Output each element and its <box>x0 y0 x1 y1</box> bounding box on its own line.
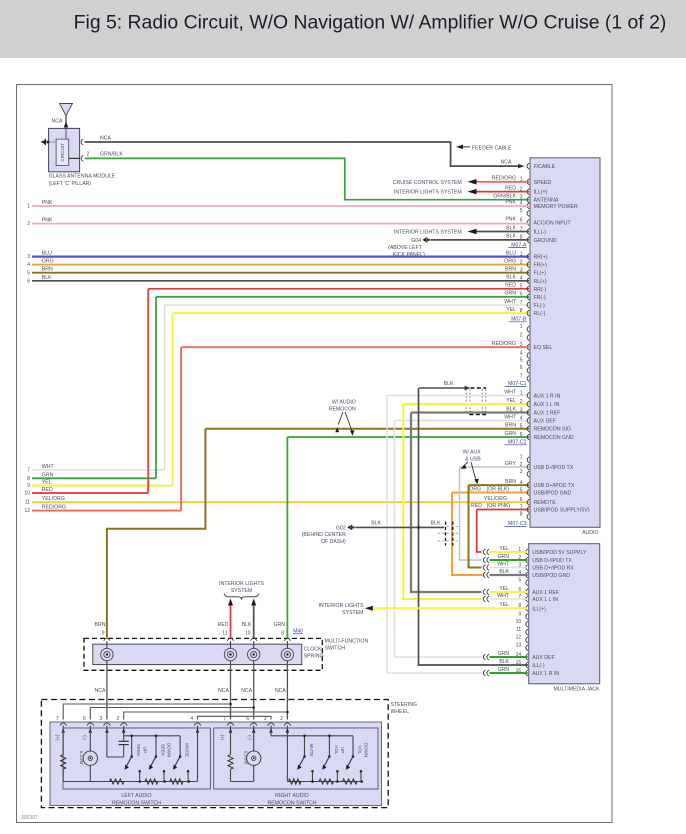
bus ill- to left pin6 <box>90 708 253 720</box>
svg-text:ILLUM: ILLUM <box>244 751 249 765</box>
svg-text:BRN: BRN <box>505 267 516 273</box>
radio pin RR(-) bracket <box>527 286 529 292</box>
radio pin USB D-/IPOD TX <box>527 464 529 470</box>
svg-text:(OR BLK): (OR BLK) <box>487 486 510 492</box>
svg-text:3: 3 <box>520 268 523 274</box>
svg-text:5: 5 <box>27 270 30 276</box>
svg-text:BLK: BLK <box>371 520 381 526</box>
svg-text:FL(-): FL(-) <box>534 303 546 309</box>
wire BRN remocon sig path <box>107 429 205 638</box>
junction bus3 <box>286 711 289 714</box>
svg-text:4: 4 <box>27 262 30 268</box>
svg-text:FL(+): FL(+) <box>534 271 547 277</box>
svg-text:2: 2 <box>520 259 523 265</box>
wire RED ill+ <box>468 189 477 195</box>
radio pin C-6 <box>527 367 529 373</box>
radio pin ILL(-) row <box>527 229 529 235</box>
svg-text:BLK: BLK <box>506 234 516 240</box>
capacitor <box>123 735 125 742</box>
svg-text:5: 5 <box>520 358 523 364</box>
svg-text:SYSTEM: SYSTEM <box>231 588 252 594</box>
switch pin 7 entry <box>62 726 64 735</box>
svg-text:FR(+): FR(+) <box>534 263 548 269</box>
svg-text:(-): (-) <box>248 735 253 740</box>
wire NCA below clock spring 2 <box>230 665 232 720</box>
jack pin 1 USB/IPOD 5V SUPPLY <box>526 549 528 555</box>
clock spring bar <box>93 644 302 665</box>
multimedia jack block <box>529 544 600 684</box>
svg-text:STEERING: STEERING <box>391 702 418 708</box>
svg-text:2: 2 <box>520 399 523 405</box>
radio pin C3-3 <box>527 471 529 477</box>
right rail junctions <box>311 780 314 783</box>
svg-text:AUX 1 R IN: AUX 1 R IN <box>532 671 559 677</box>
switch pin 2 bracket <box>284 723 291 726</box>
riser GRN FR- <box>155 297 157 478</box>
svg-text:5: 5 <box>520 284 523 290</box>
right rail resistors <box>289 779 302 784</box>
jack pin 13 <box>526 645 528 651</box>
svg-text:3: 3 <box>520 195 523 201</box>
svg-text:WHT: WHT <box>504 414 517 420</box>
radio pin GROUND row <box>527 237 529 243</box>
svg-text:REMOTE: REMOTE <box>534 500 557 506</box>
radio pin C-4 <box>527 353 529 359</box>
jack pin 11 <box>526 629 528 635</box>
svg-text:USB D-/IPOD TX: USB D-/IPOD TX <box>532 558 572 564</box>
svg-text:AUX 1 R IN: AUX 1 R IN <box>534 394 561 400</box>
svg-text:USB D-/IPOD TX: USB D-/IPOD TX <box>534 465 574 471</box>
antenna module pin bracket NCA <box>81 139 83 145</box>
switch pin 6 entry <box>89 726 91 735</box>
steering wheel dashed box <box>41 700 388 808</box>
svg-text:BRN: BRN <box>42 267 53 273</box>
radio pin FL(+) bracket <box>527 270 529 276</box>
remocon switches lavender box <box>50 722 382 806</box>
switch pin 2 entry <box>286 726 288 735</box>
wire PNK left pin 2 <box>32 223 529 225</box>
antenna module pin bracket 2 <box>81 155 83 161</box>
switch pin 7 bracket <box>60 723 67 726</box>
svg-text:GRN/BLK: GRN/BLK <box>100 152 123 158</box>
svg-text:USB/IPOD GND: USB/IPOD GND <box>532 573 570 579</box>
svg-text:1: 1 <box>520 251 523 257</box>
wire GRN to radio REMOCON GND <box>287 436 529 438</box>
svg-text:ORG: ORG <box>504 258 516 264</box>
svg-text:GROUND: GROUND <box>534 238 557 244</box>
svg-text:(BEHIND CENTER: (BEHIND CENTER <box>302 532 346 538</box>
radio pin REMOCON SIG bracket <box>527 426 529 432</box>
switch pin 6 bracket <box>250 723 257 726</box>
svg-text:YEL/ORG: YEL/ORG <box>484 496 507 502</box>
wire NCA below clock spring 3 <box>253 665 255 720</box>
svg-text:NCA: NCA <box>52 119 63 125</box>
wire YEL to radio RL(-) <box>173 312 529 314</box>
right switch top bus <box>271 735 353 737</box>
svg-text:BRN: BRN <box>505 423 516 429</box>
aux usb arrows <box>463 462 468 467</box>
svg-text:2: 2 <box>87 152 90 158</box>
jack pin 14 AUX DEF <box>526 654 528 660</box>
radio pin AUX 1 REF bracket <box>527 410 529 416</box>
right pin2 internal wire <box>286 735 288 782</box>
svg-text:8: 8 <box>520 308 523 314</box>
wire WHT jack 3 <box>490 567 528 569</box>
wire RED ill+ clockspring <box>230 605 232 638</box>
svg-text:PNK: PNK <box>505 200 516 206</box>
radio pin RL(+) bracket <box>527 278 529 284</box>
svg-text:6: 6 <box>246 716 249 722</box>
antenna module internal wires <box>49 141 57 143</box>
jack pin 9 <box>526 614 528 620</box>
wire GRN/BLK antenna <box>85 158 530 199</box>
switch pin 7 entry <box>230 726 232 735</box>
svg-text:(+): (+) <box>220 735 225 741</box>
svg-text:BLK: BLK <box>499 569 509 575</box>
svg-text:BLK: BLK <box>242 622 252 628</box>
svg-text:W/ AUX: W/ AUX <box>463 449 482 455</box>
svg-text:INTERIOR LIGHTS SYSTEM: INTERIOR LIGHTS SYSTEM <box>394 230 462 236</box>
splice jack 1 <box>483 549 485 555</box>
svg-text:DOWN: DOWN <box>167 743 172 758</box>
right bottom rail <box>287 781 361 783</box>
svg-text:RED: RED <box>471 503 482 509</box>
radio pin C-7 <box>527 376 529 382</box>
svg-text:RL(-): RL(-) <box>534 311 546 317</box>
svg-text:6: 6 <box>520 217 523 223</box>
clock spring coil 2 <box>230 641 232 649</box>
svg-text:(OR PNK): (OR PNK) <box>487 503 511 509</box>
jack pin 6 AUX 1 REF <box>526 589 528 595</box>
svg-text:UP: UP <box>142 747 147 753</box>
wire YEL/ORG REMOTE <box>32 501 529 503</box>
riser WHT FL- <box>164 305 166 470</box>
clock spring coil 4 <box>286 641 288 649</box>
svg-text:2: 2 <box>27 221 30 227</box>
svg-text:6: 6 <box>520 292 523 298</box>
svg-text:7: 7 <box>520 504 523 510</box>
radio pin C-2 <box>527 335 529 341</box>
svg-text:& USB: & USB <box>465 456 481 462</box>
wire RED to radio RR(-) <box>148 288 529 290</box>
svg-text:WHT: WHT <box>42 464 55 470</box>
svg-text:RL(+): RL(+) <box>534 279 547 285</box>
svg-text:RED/ORG: RED/ORG <box>492 176 516 182</box>
switch pin 6 bracket <box>87 723 94 726</box>
svg-text:10: 10 <box>24 491 30 497</box>
inline connector at G02 <box>445 522 447 546</box>
riser YEL RL- <box>172 313 174 486</box>
svg-text:RED: RED <box>505 283 516 289</box>
svg-text:WHT: WHT <box>504 389 517 395</box>
radio pin ACC/ON INPUT row <box>527 220 529 226</box>
svg-text:EQ SEL: EQ SEL <box>534 345 553 351</box>
svg-text:10: 10 <box>516 619 522 625</box>
feeder cable arrow <box>456 145 463 150</box>
svg-text:AUX 1 REF: AUX 1 REF <box>532 590 559 596</box>
svg-text:REMOCON SWITCH: REMOCON SWITCH <box>112 800 161 806</box>
svg-text:AUX DEF: AUX DEF <box>534 419 556 425</box>
junction bus1 <box>229 703 232 706</box>
svg-text:8: 8 <box>520 511 523 517</box>
radio pin USB/IPOD SUPPLY <box>527 507 529 513</box>
jack pin 15 ILL(-) <box>526 662 528 668</box>
radio pin RL(-) bracket <box>527 310 529 316</box>
svg-text:REMOCON GND: REMOCON GND <box>534 435 574 441</box>
svg-text:AUX 1 L IN: AUX 1 L IN <box>532 597 558 603</box>
riser ORG usb gnd <box>452 493 483 576</box>
riser RED/ORG EQ SEL <box>180 347 182 510</box>
radio pin C-5 <box>527 360 529 366</box>
svg-text:3: 3 <box>27 254 30 260</box>
svg-text:SPRING: SPRING <box>304 653 324 659</box>
svg-text:ILL(+): ILL(+) <box>534 190 548 196</box>
left rail resistors <box>110 779 125 784</box>
svg-text:USB/IPOD SUPPLY(5V): USB/IPOD SUPPLY(5V) <box>534 508 590 514</box>
svg-text:RED: RED <box>42 487 53 493</box>
radio pin USB/IPOD GND <box>527 490 529 496</box>
svg-text:7: 7 <box>56 716 59 722</box>
svg-text:ILL(-): ILL(-) <box>534 230 547 236</box>
svg-text:GRY: GRY <box>505 461 517 467</box>
radio pin FR(-) bracket <box>527 294 529 300</box>
wire BLK ill- clockspring <box>253 605 255 638</box>
switch pin 3 entry <box>106 726 108 735</box>
antenna symbol <box>60 104 73 116</box>
splice jack 3 <box>483 565 485 571</box>
svg-text:GLASS ANTENNA MODULE: GLASS ANTENNA MODULE <box>49 173 116 179</box>
svg-text:RIGHT AUDIO: RIGHT AUDIO <box>275 793 309 799</box>
svg-text:INTERIOR LIGHTS SYSTEM: INTERIOR LIGHTS SYSTEM <box>394 190 462 196</box>
splice jack 2 <box>483 557 485 563</box>
riser RED RR- <box>147 289 149 493</box>
svg-text:11: 11 <box>25 500 30 506</box>
radio pin C3-1 <box>527 457 529 463</box>
svg-text:12: 12 <box>516 635 522 641</box>
jack pin 7 AUX 1 L IN <box>526 596 528 602</box>
svg-text:SEEK: SEEK <box>161 744 166 757</box>
svg-text:BLK: BLK <box>444 381 454 387</box>
svg-text:ACC/ON INPUT: ACC/ON INPUT <box>534 221 572 227</box>
svg-text:9: 9 <box>518 611 521 617</box>
svg-text:1: 1 <box>520 455 523 461</box>
svg-text:USB/IPOD GND: USB/IPOD GND <box>534 491 572 497</box>
wire BRN USB D+ TX <box>469 484 530 486</box>
svg-text:MODE: MODE <box>185 743 190 757</box>
riser BLK aux1REF <box>411 413 482 593</box>
svg-text:YEL: YEL <box>506 398 516 404</box>
jack pin 16 AUX 1 R IN <box>526 670 528 676</box>
radio pin AUX DEF bracket <box>527 418 529 424</box>
svg-text:12: 12 <box>24 508 30 514</box>
svg-text:(LEFT 'C' PILLAR): (LEFT 'C' PILLAR) <box>49 181 92 187</box>
svg-text:YEL: YEL <box>506 307 516 313</box>
svg-text:W/ AUDIO: W/ AUDIO <box>332 399 356 405</box>
svg-text:BLK: BLK <box>506 406 516 412</box>
radio pin SPEED row <box>527 179 529 185</box>
wire BLK jack 4 <box>490 574 528 576</box>
svg-text:BRN: BRN <box>505 479 516 485</box>
clock spring pin bracket 2 <box>227 638 233 641</box>
svg-text:(-): (-) <box>83 735 88 740</box>
svg-text:BLU: BLU <box>506 250 516 256</box>
svg-text:4: 4 <box>190 716 193 722</box>
jack pin 12 <box>526 637 528 643</box>
jack pin 2 USB D-/IPOD TX <box>526 557 528 563</box>
antenna module inner circuit box <box>56 139 69 165</box>
wire WHT to radio FL(-) <box>165 304 529 306</box>
svg-text:3: 3 <box>100 716 103 722</box>
wire YEL jack 8 <box>369 607 528 609</box>
svg-text:YEL: YEL <box>499 602 509 608</box>
svg-text:BLK: BLK <box>42 275 52 281</box>
multifunction switch dashed box <box>84 638 322 670</box>
svg-text:NCA: NCA <box>241 688 252 694</box>
joint connector dashed box <box>471 387 487 389</box>
svg-text:7: 7 <box>223 716 226 722</box>
svg-text:6: 6 <box>520 432 523 438</box>
svg-text:(ABOVE LEFT: (ABOVE LEFT <box>388 245 423 251</box>
svg-text:GRN/BLK: GRN/BLK <box>493 194 516 200</box>
mute switch <box>304 736 306 756</box>
title bar <box>0 0 686 58</box>
riser YEL aux1LIN <box>403 404 481 599</box>
wire RED/ORG EQ SEL <box>181 346 529 348</box>
radio pin C3-8 <box>527 514 529 520</box>
svg-text:USB D+/IPOD TX: USB D+/IPOD TX <box>534 483 576 489</box>
svg-text:6: 6 <box>520 365 523 371</box>
splice jack 6 <box>483 589 485 595</box>
jack pin 10 <box>526 621 528 627</box>
svg-text:AUX DEF: AUX DEF <box>532 655 554 661</box>
svg-text:YEL: YEL <box>499 546 509 552</box>
svg-text:NCA: NCA <box>501 159 512 165</box>
wire NCA below clock spring 1 <box>106 665 108 720</box>
svg-text:RR(-): RR(-) <box>534 287 547 293</box>
svg-text:PNK: PNK <box>505 216 516 222</box>
svg-text:DOWN: DOWN <box>364 743 369 758</box>
svg-text:SPEED: SPEED <box>534 180 552 186</box>
svg-text:BLK: BLK <box>506 225 516 231</box>
antenna module left terminal <box>41 140 46 144</box>
wire WHT jack 7 <box>490 598 528 600</box>
svg-text:G02: G02 <box>336 525 346 531</box>
wire WHT left pin 7 <box>32 469 165 471</box>
wire YEL jack 1 <box>490 551 528 553</box>
svg-text:RED/ORG: RED/ORG <box>42 505 66 511</box>
svg-text:MEMORY POWER: MEMORY POWER <box>534 204 578 210</box>
svg-text:NCA: NCA <box>218 688 229 694</box>
svg-text:Fig 5: Radio Circuit, W/O Navi: Fig 5: Radio Circuit, W/O Navigation W/ … <box>74 12 667 34</box>
vol up switch <box>328 736 330 756</box>
riser WHT auxdef <box>395 421 482 658</box>
svg-text:RR(+): RR(+) <box>534 255 548 261</box>
seek up switch <box>131 736 133 756</box>
svg-text:GRN: GRN <box>497 667 509 673</box>
svg-text:SYSTEM: SYSTEM <box>342 610 363 616</box>
jack pin 8 ILL(+) <box>526 605 528 611</box>
wire RED/ORG left pin 12 <box>32 510 181 512</box>
wire RED USB 5V <box>477 509 529 511</box>
clock spring pin bracket 1 <box>104 638 110 641</box>
svg-text:ORG: ORG <box>469 486 481 492</box>
riser BRN usb d+ <box>469 485 482 567</box>
bus ill+ to left pin7 <box>63 704 230 720</box>
wire BLK ground G04 <box>431 239 530 241</box>
svg-text:13: 13 <box>516 643 522 649</box>
svg-text:ORG: ORG <box>42 259 54 265</box>
svg-text:OF DASH): OF DASH) <box>321 539 346 545</box>
riser GRY usb d- <box>460 467 482 560</box>
svg-text:NCA: NCA <box>275 688 286 694</box>
svg-text:YEL: YEL <box>499 586 509 592</box>
svg-text:RED: RED <box>505 185 516 191</box>
svg-text:3: 3 <box>520 407 523 413</box>
wire GRY USB D- TX <box>460 466 530 468</box>
svg-text:6: 6 <box>520 497 523 503</box>
svg-text:5: 5 <box>520 424 523 430</box>
svg-text:NCA: NCA <box>95 688 106 694</box>
jack pin 4 USB/IPOD GND <box>526 572 528 578</box>
left switch top bus <box>124 735 180 737</box>
svg-text:ILLUM: ILLUM <box>79 751 84 765</box>
wire BLK joint connector <box>419 387 466 389</box>
svg-text:WHT: WHT <box>504 299 517 305</box>
svg-text:GRN: GRN <box>504 291 516 297</box>
svg-text:USB/IPOD 5V SUPPLY: USB/IPOD 5V SUPPLY <box>532 550 587 556</box>
svg-text:PNK: PNK <box>42 200 53 206</box>
right pin3 internal wire <box>270 735 272 736</box>
svg-text:CRUISE CONTROL SYSTEM: CRUISE CONTROL SYSTEM <box>393 180 462 186</box>
svg-text:9: 9 <box>27 483 30 489</box>
switch pin 6 entry <box>253 726 255 735</box>
svg-text:NCA: NCA <box>100 135 111 141</box>
wire BRN to radio FL(+) <box>32 272 529 274</box>
svg-text:(+): (+) <box>55 735 60 741</box>
radio pin MEMORY POWER row <box>527 203 529 209</box>
svg-text:KICK PANEL): KICK PANEL) <box>393 252 425 258</box>
radio pin REMOTE <box>527 499 529 505</box>
svg-text:8: 8 <box>27 476 30 482</box>
wire BLK ill- <box>468 229 477 235</box>
radio pin ILL(+) row <box>527 189 529 195</box>
wire WHT to radio AUX 1 R IN <box>387 395 529 397</box>
switch pin 4 entry <box>197 726 199 735</box>
svg-text:4: 4 <box>520 350 523 356</box>
svg-text:AUX 1 L IN: AUX 1 L IN <box>534 402 560 408</box>
svg-text:7: 7 <box>520 373 523 379</box>
wire BLK G02 <box>355 526 444 528</box>
svg-text:GRN: GRN <box>273 622 285 628</box>
svg-text:300397: 300397 <box>21 815 38 821</box>
svg-text:INTERIOR LIGHTS: INTERIOR LIGHTS <box>319 603 365 609</box>
svg-text:5: 5 <box>520 208 523 214</box>
wire BLU to radio RR(+) <box>32 256 529 258</box>
audio remocon arrows <box>338 412 343 425</box>
wire NCA below clock spring 4 <box>286 665 288 720</box>
svg-text:WHT: WHT <box>497 593 510 599</box>
svg-text:FEEDER CABLE: FEEDER CABLE <box>472 145 512 151</box>
wire BLK to radio RL(+) <box>32 280 529 282</box>
riser WHT aux1RIN <box>387 396 482 674</box>
radio pin 5 row <box>527 210 529 216</box>
switch pin 4 bracket <box>194 723 201 726</box>
svg-text:F/CABLE: F/CABLE <box>534 164 556 170</box>
svg-text:REMOCON SWITCH: REMOCON SWITCH <box>268 800 317 806</box>
svg-text:WHT: WHT <box>497 561 510 567</box>
svg-text:4: 4 <box>520 480 523 486</box>
svg-text:GRN: GRN <box>497 554 509 560</box>
